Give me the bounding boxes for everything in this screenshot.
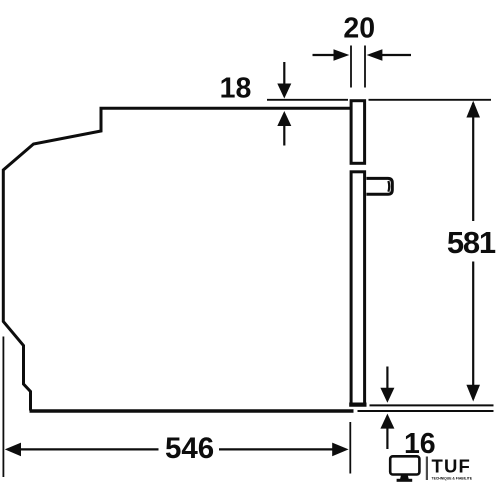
dim20 right arrowhead (367, 49, 383, 61)
dim581 bottom arrowhead (466, 385, 480, 402)
door front panel rect (351, 172, 365, 405)
dim581 top extension line (369, 99, 492, 101)
svg-text:20: 20 (343, 12, 375, 44)
svg-text:546: 546 (165, 432, 214, 465)
dim20 extension line right (364, 46, 366, 88)
dim16 down arrow tail (386, 367, 388, 389)
oven body outline (3, 108, 351, 410)
dim546 right arrowhead (332, 443, 348, 457)
dim581 line lower (472, 262, 474, 400)
dim18 bottom arrowhead (277, 111, 291, 126)
dim18 extension line (267, 99, 348, 101)
dim16 lower extension line (358, 410, 494, 412)
svg-text:TUF: TUF (432, 455, 472, 476)
svg-text:18: 18 (220, 73, 252, 105)
dim546 right extension line (349, 422, 351, 474)
dim20 right arrow tail (382, 54, 412, 56)
control panel rect (351, 101, 365, 164)
handle (366, 178, 392, 194)
dim18 top arrow tail (283, 62, 285, 85)
dim16 up arrow tail (386, 428, 388, 449)
dim20 left arrowhead (334, 49, 350, 61)
handle end cap (387, 181, 390, 192)
logo monitor stand base (397, 479, 413, 482)
dim581 top arrowhead (466, 101, 480, 118)
oven bottom line (30, 409, 354, 412)
dim20 left arrow tail (313, 54, 335, 56)
dim546 line right segment (219, 448, 333, 450)
dim16 upper extension line (370, 404, 494, 406)
dim20 extension line left (350, 46, 352, 88)
dim16 down arrowhead (380, 388, 394, 403)
logo monitor stand stem (400, 475, 409, 480)
logo separator bar (426, 457, 428, 481)
door bottom thick line (349, 403, 366, 407)
dim546 line left segment (20, 448, 159, 450)
logo monitor icon (390, 456, 419, 474)
dim18 top arrowhead (277, 84, 291, 99)
dim546 left extension line (2, 337, 4, 478)
svg-text:TECHNIQUE & FIABILITE: TECHNIQUE & FIABILITE (432, 476, 473, 480)
dim16 up arrowhead (380, 414, 394, 429)
dim546 left arrowhead (5, 443, 21, 457)
dim18 bottom arrow tail (283, 126, 285, 146)
dim581 line upper (472, 103, 474, 221)
svg-text:581: 581 (447, 225, 496, 260)
